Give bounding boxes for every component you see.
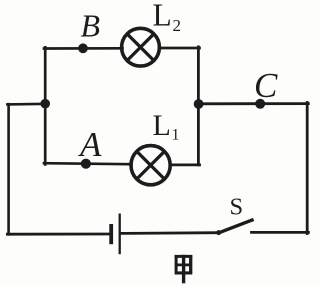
battery short thick plate (negative) xyxy=(109,224,113,244)
wire node C horizontal xyxy=(198,102,309,105)
wire left outer vertical xyxy=(7,104,10,234)
wire middle branch left segment xyxy=(44,163,132,164)
svg-text:B: B xyxy=(81,8,101,44)
wire middle branch right segment xyxy=(170,164,200,167)
node B dot xyxy=(78,43,88,53)
lamp L1 xyxy=(131,146,170,185)
node junction dot (left, between branches) xyxy=(40,99,50,109)
lamp L2 xyxy=(122,28,160,66)
svg-text:2: 2 xyxy=(173,16,182,35)
wire bottom middle segment (battery to switch) xyxy=(121,231,219,234)
battery (cell) xyxy=(111,214,120,255)
svg-text:L: L xyxy=(153,0,172,33)
wire bottom left segment (left corner to battery) xyxy=(7,233,109,236)
svg-text:C: C xyxy=(254,66,278,105)
battery long thin plate (positive) xyxy=(119,214,121,255)
figure label 甲 (drawn strokes) xyxy=(175,255,193,283)
svg-text:L: L xyxy=(153,109,171,142)
node C dot xyxy=(255,99,265,109)
node junction dot (right, between branches) xyxy=(194,99,204,109)
wire top branch left segment xyxy=(44,47,123,50)
wire bottom right segment (switch to right corner) xyxy=(252,231,309,234)
wire left branch vertical (node between B and A branches) xyxy=(44,47,47,164)
wire left link horizontal to junction xyxy=(7,103,46,106)
wire right outer vertical xyxy=(306,103,309,234)
node A dot xyxy=(81,159,91,169)
switch S xyxy=(216,219,253,235)
svg-text:1: 1 xyxy=(172,127,180,144)
switch pivot xyxy=(216,230,221,235)
wire top branch right segment xyxy=(159,47,200,50)
svg-text:S: S xyxy=(230,193,244,220)
svg-text:A: A xyxy=(78,125,102,164)
wire right branch vertical xyxy=(197,47,200,165)
switch arm xyxy=(218,219,254,233)
